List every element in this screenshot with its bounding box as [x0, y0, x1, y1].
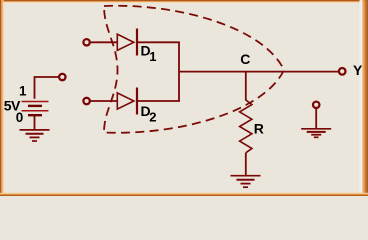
svg-text:1: 1 — [19, 84, 27, 99]
terminal input 1 (battery) — [59, 74, 65, 80]
diode D1 — [117, 29, 137, 56]
terminal right ground — [313, 102, 319, 108]
ground (battery) — [20, 130, 50, 141]
svg-text:R: R — [254, 120, 264, 136]
wire battery top stub — [35, 77, 59, 99]
wire output bus — [178, 42, 180, 101]
wire terminal to right ground — [315, 108, 317, 129]
terminal input A — [83, 39, 89, 45]
OR gate outline (dashed) — [104, 6, 284, 133]
wire battery to ground — [34, 116, 36, 129]
svg-text:2: 2 — [149, 109, 156, 124]
wire node C to resistor — [245, 72, 247, 101]
wire D1 cathode to bus — [137, 41, 180, 43]
svg-text:C: C — [240, 51, 250, 67]
terminal input B — [83, 98, 89, 104]
resistor R — [240, 100, 252, 153]
terminal Y — [339, 68, 346, 75]
battery 5V — [22, 102, 49, 116]
wire D2 cathode to bus — [137, 100, 180, 102]
wire bus to Y — [179, 71, 338, 73]
svg-text:1: 1 — [149, 49, 156, 64]
ground (resistor) — [231, 176, 261, 188]
ground (right) — [301, 129, 331, 138]
wire input A to D1 anode — [91, 41, 118, 43]
wire resistor to ground — [245, 153, 247, 175]
wire input B to D2 anode — [91, 100, 118, 102]
svg-text:0: 0 — [16, 110, 24, 125]
diode D2 — [117, 88, 137, 115]
svg-text:Y: Y — [353, 62, 363, 78]
